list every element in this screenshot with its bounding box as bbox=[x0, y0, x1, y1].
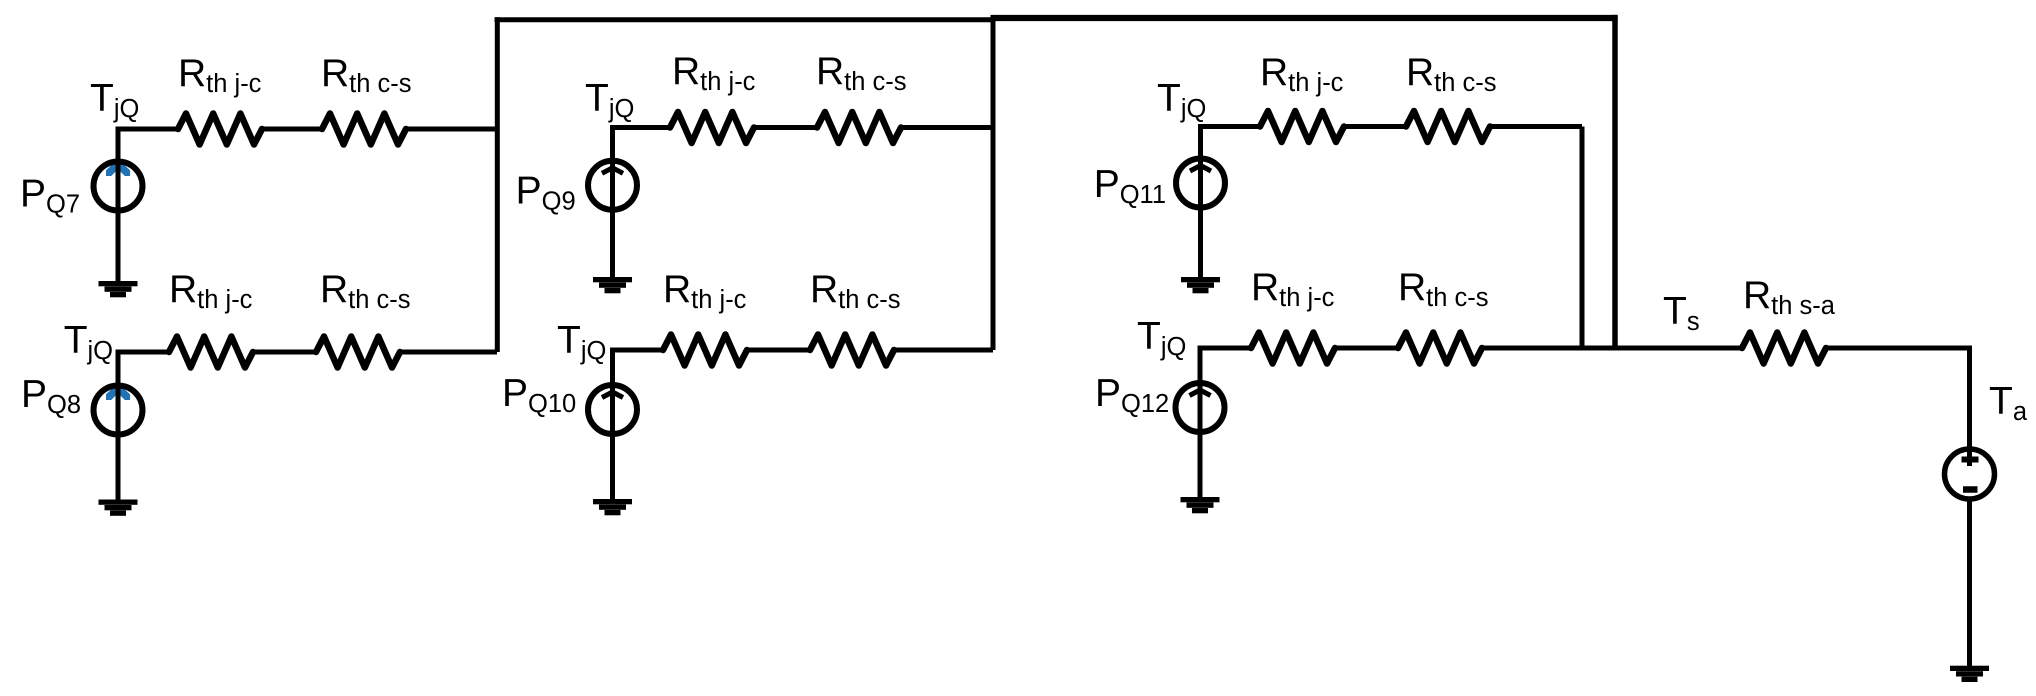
svg-text:Rth j-c: Rth j-c bbox=[178, 52, 262, 98]
svg-text:TjQ: TjQ bbox=[1137, 315, 1186, 361]
ground below PQ11 bbox=[1181, 277, 1220, 282]
resistor R_th_c-s branch Q9 bbox=[817, 112, 901, 143]
resistor R_th_c-s branch Q7 bbox=[322, 114, 406, 145]
current source PQ12 circle bbox=[1176, 383, 1225, 432]
resistor R_th_c-s branch Q8 bbox=[316, 337, 400, 368]
wire from Ta source to ground bbox=[1967, 500, 1972, 667]
svg-text:Rth c-s: Rth c-s bbox=[1398, 266, 1489, 312]
svg-text:Rth j-c: Rth j-c bbox=[169, 268, 253, 314]
current source PQ8 circle bbox=[94, 386, 143, 435]
wire Q7 row horizontal segment 2 bbox=[262, 127, 322, 132]
svg-text:TjQ: TjQ bbox=[585, 77, 634, 123]
wire Q9 row horizontal segment 1 bbox=[610, 125, 670, 130]
ground below PQ9 bbox=[593, 277, 632, 282]
svg-text:Rth j-c: Rth j-c bbox=[663, 268, 747, 314]
ground below PQ8 bbox=[99, 500, 138, 505]
wire Q11 row horizontal segment 3 bbox=[1490, 124, 1582, 129]
svg-text:Rth c-s: Rth c-s bbox=[321, 52, 412, 98]
wire top bus left segment bbox=[495, 17, 994, 22]
svg-text:TjQ: TjQ bbox=[1157, 77, 1206, 123]
current source PQ9 arrowhead bbox=[602, 168, 623, 174]
svg-text:TjQ: TjQ bbox=[90, 77, 139, 123]
svg-text:Rth j-c: Rth j-c bbox=[1251, 266, 1335, 312]
svg-text:PQ8: PQ8 bbox=[21, 373, 81, 419]
wire vertical drop to Ta source bbox=[1967, 346, 1972, 467]
resistor R_th_j-c branch Q12 bbox=[1251, 333, 1335, 364]
wire Q8 row horizontal segment 1 bbox=[116, 350, 170, 355]
ground below PQ10 bbox=[593, 499, 632, 504]
current source PQ7 circle bbox=[94, 162, 143, 211]
svg-text:Ta: Ta bbox=[1989, 380, 2028, 426]
wire Ts net from Rth c-s Q12 to Rth s-a bbox=[1482, 346, 1742, 351]
wire Q11 row horizontal segment 1 bbox=[1198, 124, 1260, 129]
wire Q8 row horizontal segment 2 bbox=[253, 350, 316, 355]
voltage source Ta circle bbox=[1945, 449, 1995, 499]
wire vertical bus drop column1 x=497 bbox=[495, 17, 500, 352]
voltage source Ta minus sign bbox=[1963, 486, 1978, 493]
current source PQ7 blue arrowhead bbox=[106, 162, 130, 176]
current source PQ9 circle bbox=[588, 161, 637, 210]
resistor R_th_c-s branch Q10 bbox=[810, 335, 894, 366]
ground below PQ7 bbox=[99, 281, 138, 286]
resistor R_th_j-c branch Q7 bbox=[178, 114, 262, 145]
wire Q9 row horizontal segment 2 bbox=[754, 125, 817, 130]
current source PQ12 arrowhead bbox=[1190, 390, 1211, 396]
svg-text:Ts: Ts bbox=[1663, 290, 1700, 336]
svg-text:TjQ: TjQ bbox=[557, 319, 606, 365]
resistor R_th_j-c branch Q8 bbox=[169, 337, 253, 368]
svg-text:Rth s-a: Rth s-a bbox=[1743, 274, 1836, 320]
current source PQ11 arrowhead bbox=[1190, 166, 1211, 172]
wire Q10 row horizontal segment 1 bbox=[610, 348, 663, 353]
wire top bus right segment bbox=[991, 15, 1618, 21]
current source PQ10 circle bbox=[588, 385, 637, 434]
wire vertical bus drop column2 x=993 bbox=[991, 15, 996, 350]
current source PQ8 blue arrowhead bbox=[106, 386, 130, 400]
ground below PQ12 bbox=[1181, 497, 1220, 502]
svg-text:Rth j-c: Rth j-c bbox=[1260, 51, 1344, 97]
svg-text:PQ7: PQ7 bbox=[20, 173, 80, 219]
resistor R_th_s-a bbox=[1742, 333, 1826, 364]
svg-text:PQ10: PQ10 bbox=[502, 372, 576, 418]
node TjQ corner Q7 vertical wire through source bbox=[116, 127, 121, 282]
wire Q12 row horizontal segment 1 bbox=[1198, 346, 1252, 351]
svg-text:PQ11: PQ11 bbox=[1094, 163, 1166, 209]
node TjQ corner Q12 vertical wire through source bbox=[1198, 346, 1203, 498]
svg-text:TjQ: TjQ bbox=[64, 319, 113, 365]
node TjQ corner Q11 vertical wire through source bbox=[1198, 124, 1203, 277]
resistor R_th_j-c branch Q10 bbox=[663, 335, 747, 366]
svg-text:Rth c-s: Rth c-s bbox=[816, 50, 907, 96]
current source PQ11 circle bbox=[1176, 159, 1225, 208]
resistor R_th_j-c branch Q9 bbox=[670, 112, 754, 143]
wire Q11 row horizontal segment 2 bbox=[1344, 124, 1406, 129]
wire vertical bus drop right x=1615 to Ts node bbox=[1612, 15, 1618, 348]
svg-text:PQ12: PQ12 bbox=[1095, 372, 1169, 418]
wire Q9 row horizontal segment 3 bbox=[901, 125, 993, 130]
wire Q10 row horizontal segment 3 bbox=[894, 348, 993, 353]
svg-text:Rth j-c: Rth j-c bbox=[672, 50, 756, 96]
svg-text:Rth c-s: Rth c-s bbox=[320, 268, 411, 314]
wire Q7 row horizontal segment 1 bbox=[116, 127, 179, 132]
voltage source Ta plus sign bbox=[1962, 457, 1979, 463]
wire Q7 row horizontal segment 3 bbox=[406, 127, 497, 132]
resistor R_th_c-s branch Q12 bbox=[1398, 333, 1482, 364]
wire Q12 row horizontal segment 2 bbox=[1335, 346, 1398, 351]
resistor R_th_j-c branch Q11 bbox=[1260, 111, 1344, 142]
wire vertical column3 inner x=1582 joining row1 to Ts bbox=[1580, 127, 1585, 349]
current source PQ10 arrowhead bbox=[602, 392, 623, 398]
resistor R_th_c-s branch Q11 bbox=[1406, 111, 1490, 142]
wire Ts net from Rth s-a to corner bbox=[1826, 346, 1972, 351]
svg-text:PQ9: PQ9 bbox=[516, 170, 576, 216]
ground bottom right bbox=[1950, 666, 1989, 671]
wire Q8 row horizontal segment 3 bbox=[400, 350, 497, 355]
node TjQ corner Q8 vertical wire through source bbox=[116, 350, 121, 500]
node TjQ corner Q10 vertical wire through source bbox=[610, 348, 615, 500]
node TjQ corner Q9 vertical wire through source bbox=[610, 125, 615, 277]
wire Q10 row horizontal segment 2 bbox=[747, 348, 810, 353]
svg-text:Rth c-s: Rth c-s bbox=[810, 268, 901, 314]
svg-text:Rth c-s: Rth c-s bbox=[1406, 51, 1497, 97]
